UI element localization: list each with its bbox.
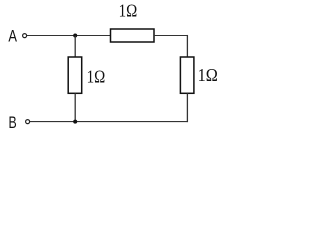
svg-text:A: A — [8, 27, 17, 45]
wire: R1 to top-right corner — [154, 35, 187, 37]
svg-text:1Ω: 1Ω — [119, 1, 138, 21]
resistor R2 (left middle, 1Ω) — [68, 57, 82, 93]
terminal A — [23, 34, 27, 38]
junction bottom node — [73, 120, 77, 124]
wire: bottom rail — [30, 121, 188, 123]
wire: R3 down to bottom-right corner — [186, 93, 188, 122]
wire: terminal A to R1 — [27, 35, 111, 37]
resistor R1 (top, 1Ω) — [111, 29, 155, 42]
resistor R3 (right, 1Ω) — [180, 57, 194, 93]
svg-text:1Ω: 1Ω — [198, 65, 218, 85]
svg-text:1Ω: 1Ω — [87, 67, 106, 87]
junction top node — [73, 34, 77, 38]
wire: R2 down to bottom rail — [74, 93, 76, 121]
svg-text:B: B — [9, 114, 17, 132]
wire: top-right corner down to R3 — [186, 35, 188, 57]
terminal B — [26, 120, 30, 124]
wire: junction down to R2 — [74, 36, 76, 58]
